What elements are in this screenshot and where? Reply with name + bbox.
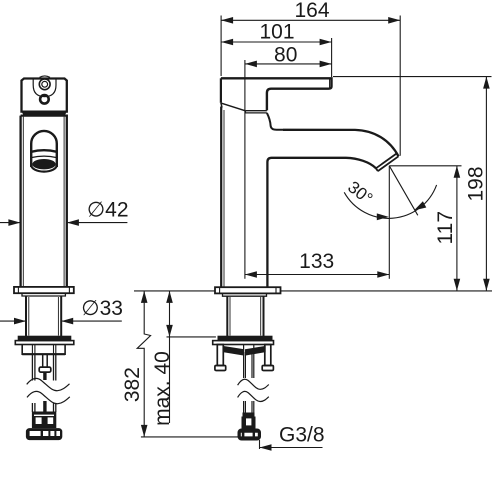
front view spout band 2 [31,156,57,158]
front view connector top slit [34,415,54,416]
side view bracket [223,347,265,355]
front view break wave 2 [27,391,70,403]
extension line right of 164 [399,16,401,156]
svg-text:133: 133 [299,250,334,273]
front view flange collar [22,293,65,296]
arrowheads 382 [141,291,148,437]
side view lower flange wide plate [213,341,274,345]
svg-text:117: 117 [434,211,457,244]
side view connector body [242,417,255,429]
extension line vertical below spout [388,166,390,279]
front view connector window right [48,417,54,424]
front view connector window left [36,417,42,424]
dimension 117 line [456,166,458,291]
front view body outline [21,116,67,287]
svg-text:max. 40: max. 40 [151,351,174,426]
side view connector window [246,418,251,425]
arrowheads 164 [221,17,400,24]
side view flange collar [223,293,267,296]
front view hose right [54,355,56,381]
front view lower flange wide plate [15,341,74,345]
dimension diameter33 line [0,320,122,322]
dimension 133 line [245,274,389,276]
front view body inner line left [22,117,24,286]
side view nozzle face [376,154,399,172]
front view lower flange dark plate [18,336,71,340]
side view shank inner lines [230,297,261,336]
arrowheads diameter 42 [8,219,79,226]
svg-text:∅42: ∅42 [87,199,129,222]
side view spout top [283,130,399,157]
svg-text:101: 101 [259,20,294,43]
extension line left of 164/101 [220,16,222,77]
svg-text:∅33: ∅33 [81,297,123,320]
side view hex nut [238,429,261,440]
arrowheads diameter 33 [14,318,73,325]
side view spout shoulder [267,113,283,130]
dimension 101 line [221,41,332,43]
front view spout arch [31,131,57,167]
front view shank left outer [25,296,27,336]
front view screw outer circle [39,79,50,90]
front view handle dot circle [40,95,49,104]
front view stud rod below nut [43,372,46,380]
front view connector block [32,412,55,428]
front view break wave 1 [27,378,70,390]
countertop reference line [134,290,492,292]
bottom reference line [141,436,261,438]
front view handle outline [22,79,67,112]
dimension 198 line [485,77,487,291]
front view shank inner lines [29,297,59,336]
G3/8 leader vertical tick [259,440,261,449]
side view mounting stud right [265,345,271,366]
svg-text:164: 164 [294,0,329,22]
side view lever bar [221,78,332,110]
side view body front edge [267,158,271,287]
arrowheads 101 [221,39,332,46]
side view connector dark band [243,413,254,417]
svg-text:30°: 30° [344,177,376,208]
arrowheads 80 [245,61,332,68]
side view body back inner line [223,110,225,287]
front view handle base band [22,112,66,115]
dimension diameter42 line [0,222,127,224]
side view flange plate [215,287,281,293]
arrowhead arc left [377,213,389,220]
arrowheads 133 [245,271,389,278]
side view stud foot left [215,366,226,371]
dimension 80 line [245,63,332,65]
front view stud nut [39,367,51,372]
front view central stud [43,355,48,368]
side view spout bottom [272,158,377,169]
front view handle boss U-shape [33,79,56,97]
svg-text:198: 198 [465,166,488,201]
front view manifold white band [30,431,60,436]
side view mounting stud left [217,345,223,366]
extension line for 80/133 [244,60,246,279]
front view lower rod [43,401,46,412]
front view screw inner circle [42,81,48,87]
angle 30 degree line [389,166,418,216]
side view break wave 2 [238,391,269,401]
G3/8 leader line [260,447,323,449]
front view manifold [26,429,61,440]
front view handle top bump [40,76,51,78]
side view central hose [244,345,254,379]
arrowhead G3/8 leader [260,444,272,451]
side view body back edge [220,107,222,288]
front view flange end cap right [68,287,70,293]
front view spout bottom rim [31,165,57,172]
extension line flange top level [167,336,216,338]
side view lower hose [244,401,254,413]
side view break wave 1 [238,379,269,389]
front view hose left [32,355,35,381]
side view lever underside diagonal [221,103,246,111]
front view bracket slot lines [32,345,55,354]
arrowheads 198 [483,77,490,291]
dimension max40 line [169,291,171,423]
side view flange end caps [220,287,276,293]
svg-text:382: 382 [121,367,144,402]
front view spout band 1 [31,150,57,152]
svg-text:80: 80 [274,43,297,66]
top extension line for 198 [333,76,492,78]
arrowheads max40 [166,291,173,337]
front view shank right outer [60,296,62,336]
front view lower hoses [32,403,55,412]
side view stud foot right [262,366,273,371]
extension line right of 101/80 [331,38,333,77]
dimension 164 line [221,19,400,21]
side view lever back edge [220,78,222,103]
side view shank left [226,296,228,336]
dimension 382 line upper [137,291,150,437]
extension line spout outlet for 117 [389,165,461,167]
side view neck ring [245,111,267,113]
front view flange end cap left [17,287,19,293]
front view bracket [22,345,65,355]
side view lever end face inner line [329,80,331,89]
front view body inner line right [63,117,65,286]
front view spout outlet blob [32,159,55,169]
angle 30 degree arc [344,185,436,218]
side view lower flange dark plate [218,336,272,340]
side view hex nut white band [241,433,258,438]
arrowheads 117 [454,166,461,291]
arrowhead arc right [414,201,426,210]
svg-text:G3/8: G3/8 [279,424,325,447]
side view shank right [263,296,265,336]
front view bracket bottom edge [22,353,65,355]
front view flange plate [14,287,74,293]
